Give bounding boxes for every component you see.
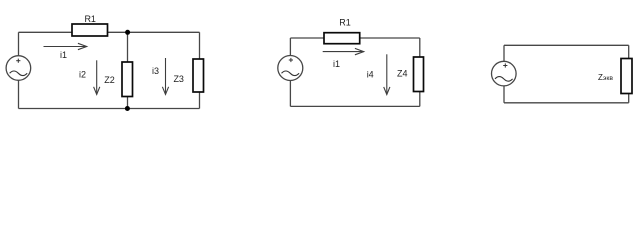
AC source V3 (C3) (492, 61, 517, 86)
svg-text:R1: R1 (84, 14, 96, 24)
wire left (C3) (503, 45, 505, 103)
current arrow i4 (C2) (384, 54, 390, 94)
wire middle branch (C1) (127, 32, 129, 108)
wire right (C3) (628, 45, 630, 103)
wire right (C1) (199, 32, 201, 108)
svg-text:i4: i4 (367, 69, 374, 79)
impedance Z2 (C1) (122, 62, 133, 97)
svg-text:i1: i1 (333, 59, 340, 69)
current arrow i1 (C1) (44, 43, 87, 49)
svg-text:R1: R1 (339, 17, 351, 27)
current arrow i1 (C2) (323, 48, 364, 54)
junction dot top (C1) (125, 30, 130, 35)
junction dot bottom (C1) (125, 106, 130, 111)
svg-text:Z2: Z2 (104, 75, 115, 85)
resistor R1 (C2) (324, 33, 360, 44)
svg-text:i1: i1 (60, 50, 67, 60)
svg-text:Z4: Z4 (397, 68, 408, 78)
wire top (C1) (19, 31, 200, 33)
wire bottom (C2) (290, 105, 419, 107)
resistor R1 (C1) (72, 24, 108, 36)
svg-text:i3: i3 (152, 66, 159, 76)
wire bottom (C1) (19, 108, 200, 110)
current arrow i3 (C1) (162, 58, 168, 94)
svg-text:Z3: Z3 (173, 74, 184, 84)
impedance Z3 (C1) (193, 59, 204, 92)
wire top (C3) (504, 44, 629, 46)
wire right (C2) (419, 38, 421, 106)
wire bottom (C3) (504, 102, 629, 104)
wire top (C2) (290, 37, 419, 39)
impedance Z4 (C2) (414, 57, 424, 92)
current arrow i2 (C1) (94, 60, 100, 94)
impedance Z_ekv (C3) (621, 59, 632, 94)
svg-text:Zэкв: Zэкв (598, 73, 613, 82)
wire left (C1) (18, 32, 20, 108)
svg-text:i2: i2 (79, 70, 86, 80)
AC source V2 (C2) (278, 56, 303, 81)
wire left (C2) (289, 38, 291, 106)
AC source V1 (C1) (6, 56, 31, 81)
